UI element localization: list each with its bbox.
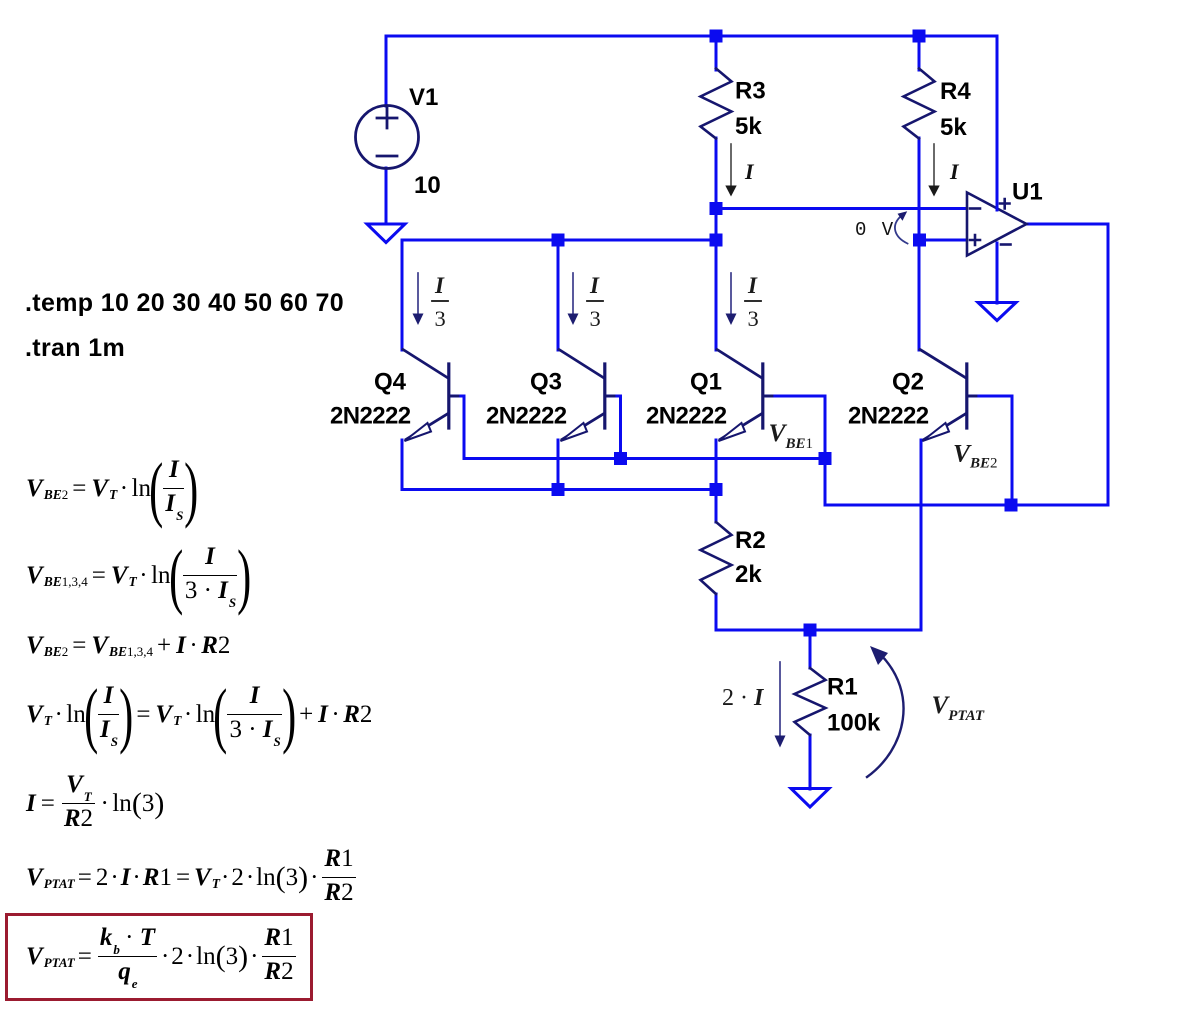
svg-text:2N2222: 2N2222 bbox=[486, 403, 567, 430]
op-amp U1 bbox=[967, 193, 1027, 256]
node junction collector rail Q3 bbox=[552, 234, 565, 247]
svg-text:0 V: 0 V bbox=[855, 219, 895, 241]
transistor Q4 bbox=[403, 350, 458, 442]
svg-text:I: I bbox=[434, 273, 445, 298]
svg-text:R4: R4 bbox=[940, 78, 971, 105]
node junction collector rail Q1 bbox=[710, 234, 723, 247]
label I/3 at Q4 bbox=[432, 273, 448, 331]
voltage source V1 bbox=[356, 106, 419, 169]
wire V1 top bbox=[385, 36, 388, 106]
wire Q4 base drop bbox=[451, 396, 464, 459]
svg-text:I: I bbox=[949, 159, 960, 184]
ground V1 bbox=[367, 224, 405, 243]
wire op-amp positive supply bbox=[996, 36, 999, 205]
wire bottom rail bbox=[716, 629, 921, 632]
resistor R4 bbox=[904, 69, 935, 139]
svg-text:2N2222: 2N2222 bbox=[330, 403, 411, 430]
current arrow 2I at R1 bbox=[775, 662, 786, 748]
wire op-amp plus input bbox=[919, 239, 966, 242]
svg-text:Q3: Q3 bbox=[530, 369, 562, 396]
SPICE directive .temp bbox=[25, 289, 344, 318]
svg-text:2N2222: 2N2222 bbox=[848, 403, 929, 430]
wire base rail bbox=[464, 457, 825, 460]
svg-text:Q4: Q4 bbox=[374, 369, 407, 396]
wire Q2 collector bbox=[918, 240, 921, 350]
current arrow I through R4 bbox=[928, 144, 939, 197]
svg-text:3: 3 bbox=[435, 306, 446, 331]
svg-text:5k: 5k bbox=[940, 114, 967, 141]
transistor Q2 bbox=[920, 350, 976, 442]
wire Q4 emitter bbox=[401, 440, 404, 490]
equation I = V_T/R2 ln(3) bbox=[26, 771, 164, 836]
wire Q3 collector bbox=[557, 240, 560, 350]
svg-text:I: I bbox=[589, 273, 600, 298]
node junction top R3 bbox=[710, 30, 723, 43]
wire top rail bbox=[386, 35, 997, 38]
wire feedback bottom bbox=[825, 504, 1108, 507]
node junction emitter rail Q1 bbox=[710, 483, 723, 496]
wire Q1 collector bbox=[715, 240, 718, 350]
svg-text:2k: 2k bbox=[735, 561, 762, 588]
svg-text:Q2: Q2 bbox=[892, 369, 924, 396]
wire R1 top lead bbox=[809, 630, 812, 668]
wire op-amp negative supply bbox=[996, 243, 999, 303]
svg-text:Q1: Q1 bbox=[690, 369, 722, 396]
node junction R4 bottom / plus input bbox=[913, 234, 926, 247]
wire op-amp output bbox=[1025, 223, 1108, 226]
wire R3 top lead bbox=[715, 36, 718, 70]
label I/3 at Q1 bbox=[745, 273, 761, 331]
SPICE directive .tran bbox=[25, 334, 125, 363]
wire V1 bottom bbox=[385, 168, 388, 224]
svg-text:I: I bbox=[747, 273, 758, 298]
wire op-amp minus input bbox=[716, 207, 966, 210]
current arrow I through R3 bbox=[725, 144, 736, 197]
node junction base rail Q1 bbox=[819, 452, 832, 465]
svg-text:I: I bbox=[744, 159, 755, 184]
svg-text:2N2222: 2N2222 bbox=[646, 403, 727, 430]
wire R4 top lead bbox=[918, 36, 921, 70]
svg-text:5k: 5k bbox=[735, 113, 762, 140]
svg-text:U1: U1 bbox=[1012, 179, 1043, 206]
current arrow I/3 at Q4 bbox=[413, 273, 424, 325]
resistor R3 bbox=[701, 69, 732, 139]
svg-text:V1: V1 bbox=[409, 84, 438, 111]
wire op-amp supply stub inside triangle bbox=[996, 194, 999, 210]
wire R2 bottom lead bbox=[715, 594, 718, 630]
node junction feedback Q2 base bbox=[1005, 499, 1018, 512]
svg-text:3: 3 bbox=[748, 306, 759, 331]
wire Q1 base riser bbox=[766, 396, 825, 505]
wire Q3 emitter bbox=[557, 440, 560, 490]
wire R3 bottom lead bbox=[715, 138, 718, 240]
current arrow I/3 at Q1 bbox=[726, 273, 737, 325]
svg-text:R3: R3 bbox=[735, 78, 766, 105]
wire Q2 base riser bbox=[969, 396, 1012, 503]
equation V_T ln(I/Is) = V_T ln(I/(3 Is)) + I R2 bbox=[26, 682, 372, 747]
svg-text:VBE2: VBE2 bbox=[953, 439, 998, 472]
wire feedback right side bbox=[1107, 224, 1110, 505]
svg-text:R2: R2 bbox=[735, 527, 766, 554]
annotation curved arrow 0 V bbox=[895, 211, 908, 243]
node junction top R4 bbox=[913, 30, 926, 43]
boxed equation V_PTAT = kb T / qe 2 ln(3) R1/R2 bbox=[5, 913, 313, 1001]
wire Q4 collector bbox=[401, 240, 404, 350]
wire collector rail bbox=[402, 239, 716, 242]
resistor R1 bbox=[795, 668, 826, 735]
svg-text:3: 3 bbox=[590, 306, 601, 331]
wire R4 bottom lead bbox=[918, 138, 921, 240]
node junction base rail Q3 bbox=[614, 452, 627, 465]
node junction R3 bottom / minus input bbox=[710, 202, 723, 215]
wire R1 bottom lead bbox=[809, 735, 812, 789]
wire Q3 base drop bbox=[607, 396, 621, 459]
current arrow I/3 at Q3 bbox=[568, 273, 579, 325]
label I/3 at Q3 bbox=[587, 273, 603, 331]
transistor Q1 bbox=[717, 350, 772, 442]
wire Q2 emitter bbox=[920, 440, 923, 630]
svg-text:10: 10 bbox=[414, 172, 441, 199]
transistor Q3 bbox=[559, 350, 614, 442]
equation V_BE1,3,4 = V_T ln(I/(3 Is)) bbox=[26, 543, 249, 608]
svg-text:VPTAT: VPTAT bbox=[932, 692, 985, 724]
wire Q1 emitter bbox=[715, 440, 718, 522]
node junction bottom rail R1 bbox=[804, 624, 817, 637]
ground op-amp bbox=[978, 303, 1016, 321]
wire emitter rail bbox=[402, 488, 716, 491]
node junction emitter rail Q3 bbox=[552, 483, 565, 496]
resistor R2 bbox=[701, 522, 732, 594]
equation V_BE2 = V_BE1,3,4 + I R2 bbox=[26, 632, 230, 660]
svg-text:100k: 100k bbox=[827, 710, 881, 737]
equation V_PTAT = 2 I R1 = V_T 2 ln(3) R1/R2 bbox=[26, 845, 358, 910]
arc arrow V_PTAT bbox=[867, 646, 904, 777]
svg-text:R1: R1 bbox=[827, 674, 858, 701]
equation V_BE2 = V_T ln(I/Is) bbox=[26, 456, 197, 521]
svg-text:2 · I: 2 · I bbox=[722, 685, 765, 711]
ground R1 bbox=[791, 789, 829, 808]
svg-text:VBE1: VBE1 bbox=[769, 418, 814, 452]
